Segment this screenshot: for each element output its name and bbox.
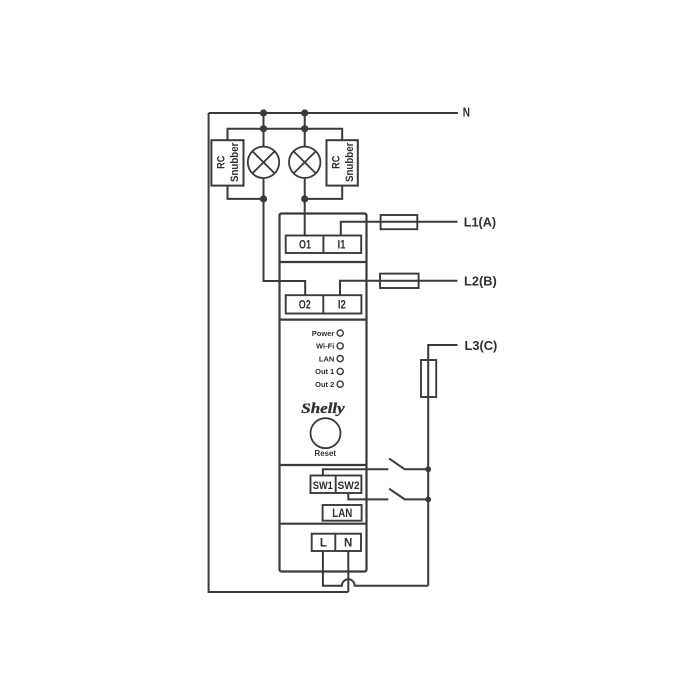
svg-text:SW2: SW2 <box>338 480 360 492</box>
svg-text:L3(C): L3(C) <box>465 338 498 353</box>
svg-text:I1: I1 <box>338 239 347 251</box>
svg-text:L1(A): L1(A) <box>464 215 496 230</box>
svg-text:N: N <box>463 104 470 119</box>
svg-text:O2: O2 <box>299 299 311 311</box>
svg-text:Out 2: Out 2 <box>315 380 334 389</box>
svg-text:Power: Power <box>312 329 335 338</box>
svg-text:LAN: LAN <box>332 506 352 520</box>
svg-text:Reset: Reset <box>315 449 337 458</box>
svg-text:N: N <box>344 538 352 550</box>
svg-text:Out 1: Out 1 <box>315 367 334 376</box>
svg-text:I2: I2 <box>338 299 346 311</box>
svg-text:SW1: SW1 <box>313 480 333 492</box>
svg-text:O1: O1 <box>299 239 311 251</box>
svg-text:L: L <box>320 538 327 550</box>
svg-text:L2(B): L2(B) <box>464 274 497 289</box>
svg-text:Shelly: Shelly <box>301 401 345 417</box>
svg-text:LAN: LAN <box>319 354 334 363</box>
svg-text:Wi-Fi: Wi-Fi <box>316 342 334 351</box>
